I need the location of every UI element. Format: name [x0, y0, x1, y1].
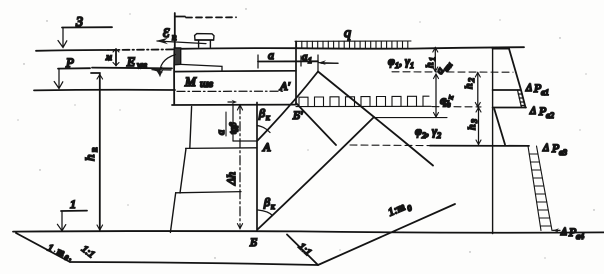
angle beta_k at B — [258, 210, 273, 216]
dimension 3 — [62, 26, 112, 28]
svg-text:М: М — [184, 74, 197, 89]
svg-text:к: к — [446, 94, 456, 100]
svg-text:h: h — [82, 155, 97, 162]
svg-text:h: h — [466, 124, 478, 130]
svg-text:а4: а4 — [576, 232, 584, 241]
block (superstructure) bottom — [172, 104, 296, 106]
svg-text:Ɛ: Ɛ — [163, 25, 170, 40]
moment curl at post — [160, 55, 176, 77]
wall front face — [173, 48, 175, 105]
slip line D1 — [318, 72, 433, 166]
svg-text:1: 1 — [410, 61, 414, 70]
pressure diagram vertical — [492, 47, 494, 233]
svg-text:А: А — [262, 140, 271, 154]
svg-text:м: м — [105, 52, 112, 62]
dimension a1 outside arrow — [319, 62, 338, 65]
dimension delta-h — [239, 105, 241, 229]
svg-text:шв: шв — [200, 78, 213, 90]
dash-dot level through block — [177, 90, 285, 92]
svg-text:3: 3 — [470, 119, 479, 124]
diagram1 mid line — [493, 89, 521, 91]
svg-text:β: β — [263, 195, 270, 209]
svg-text:q: q — [344, 26, 351, 41]
svg-text:к: к — [266, 113, 270, 122]
diagram2 top — [430, 145, 529, 147]
wall main back face — [256, 103, 258, 232]
svg-text:Б: Б — [249, 235, 257, 249]
svg-text:h: h — [424, 62, 436, 68]
angle beta_k at A — [257, 126, 270, 133]
dashed continuation of strip base — [432, 106, 481, 108]
small level dim — [115, 49, 117, 66]
dimension a — [258, 60, 318, 62]
svg-text:1: 1 — [428, 57, 437, 61]
ground line — [13, 231, 604, 233]
svg-text:1:m: 1:m — [386, 201, 406, 219]
svg-text:Δ: Δ — [542, 143, 549, 154]
tick at P1 — [317, 55, 319, 72]
dimension 1 — [61, 210, 87, 212]
horizontal line from X — [374, 117, 447, 119]
pit right slope — [287, 235, 318, 266]
dashed reference line top — [186, 16, 236, 18]
svg-text:h: h — [463, 83, 475, 89]
bracket pole — [174, 13, 176, 48]
svg-text:wв: wв — [137, 60, 147, 70]
svg-text:к: к — [271, 202, 275, 211]
diagram1 bottom — [493, 107, 526, 109]
svg-text:1:1: 1:1 — [79, 244, 96, 261]
diagram1 hatch band — [518, 90, 526, 108]
svg-text:2: 2 — [437, 131, 441, 140]
small arrow at back — [228, 101, 234, 103]
svg-text:а: а — [268, 48, 274, 62]
slip line from A to P1 — [257, 72, 318, 142]
svg-text:, γ: , γ — [426, 124, 437, 138]
svg-text:1: 1 — [70, 197, 76, 211]
bollard — [195, 34, 214, 48]
slope labels left — [45, 243, 74, 264]
svg-text:Δ: Δ — [560, 227, 567, 238]
svg-text:φ: φ — [415, 124, 422, 138]
svg-text:Δ: Δ — [529, 106, 536, 117]
svg-text:β: β — [258, 106, 265, 120]
svg-text:Р: Р — [65, 55, 74, 70]
dashed line level h1 bottom — [392, 71, 513, 73]
lower surcharge strip — [296, 96, 431, 106]
curb slope on cope — [181, 64, 222, 71]
svg-text:а: а — [216, 130, 227, 135]
svg-text:Δ: Δ — [525, 83, 532, 94]
svg-text:1:1: 1:1 — [296, 241, 313, 258]
slip line from B' corner — [296, 103, 336, 145]
wall course joints — [186, 147, 257, 150]
course faces — [190, 107, 192, 149]
diagram1 right slant — [509, 49, 526, 108]
pit left slope — [16, 233, 70, 262]
cope top — [175, 70, 296, 73]
svg-text:0: 0 — [406, 203, 413, 213]
slope 1:m0 line right — [318, 204, 455, 265]
svg-text:Δh: Δh — [224, 172, 238, 186]
dimension h1 — [434, 48, 436, 72]
svg-text:φ: φ — [388, 54, 395, 68]
diagram1 top — [493, 48, 509, 50]
block back face — [295, 42, 297, 105]
dimension P — [58, 67, 90, 69]
svg-text:п: п — [89, 147, 99, 152]
wall back upper step — [232, 105, 234, 141]
dimension h3 — [478, 108, 480, 145]
fraction label a/tg-beta — [216, 112, 238, 136]
label a_k rotated — [437, 92, 455, 107]
water level mid line — [92, 67, 172, 70]
water level low line — [34, 89, 175, 92]
mooring post — [174, 48, 180, 65]
label dP_a4 — [553, 229, 560, 231]
svg-text:3: 3 — [75, 15, 83, 30]
svg-text:2: 2 — [467, 78, 476, 82]
svg-text:, γ: , γ — [399, 54, 410, 68]
dimension a_k — [435, 74, 437, 117]
connector slant — [494, 109, 505, 145]
svg-text:а2: а2 — [546, 111, 554, 120]
label a_im rotated — [434, 57, 454, 78]
E_p arrow — [157, 41, 206, 44]
E_wv arrow — [152, 69, 171, 71]
dimension h2 — [477, 73, 479, 108]
short level line — [321, 62, 338, 64]
svg-text:а1: а1 — [541, 88, 549, 97]
svg-text:1: 1 — [308, 56, 312, 65]
svg-text:Б′: Б′ — [292, 108, 303, 122]
surcharge strip q — [295, 41, 411, 49]
dimension h_p — [91, 72, 100, 74]
svg-text:Е: Е — [126, 54, 135, 69]
slip line D2 from B — [258, 117, 374, 229]
svg-text:п: п — [172, 32, 177, 42]
svg-text:tgβ: tgβ — [228, 122, 238, 134]
svg-text:а3: а3 — [559, 148, 567, 157]
diagram2 hatch band — [528, 146, 552, 231]
water/surface level top line — [36, 49, 108, 52]
pit bottom — [70, 262, 318, 265]
svg-text:А′: А′ — [279, 79, 290, 93]
